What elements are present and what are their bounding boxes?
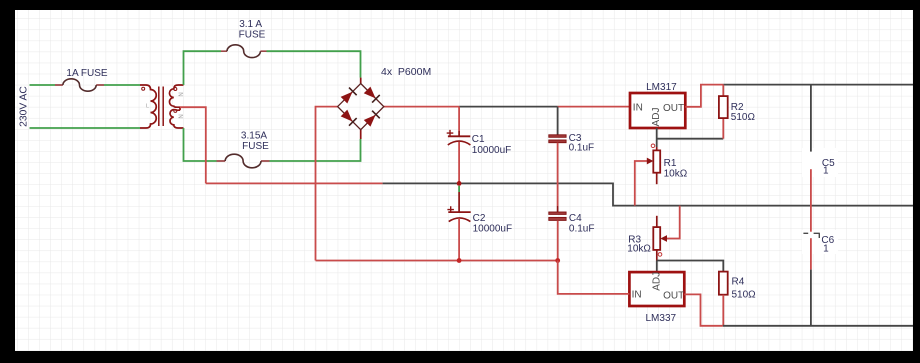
transformer T1 secondary winding 2: [170, 110, 184, 128]
junction node C2 negative rail: [457, 258, 462, 263]
wire bridge negative to rail: [316, 107, 338, 261]
potentiometer R1 body: [653, 150, 660, 172]
potentiometer R1 wiper wire: [635, 161, 647, 206]
capacitor C5 label: [822, 158, 835, 177]
bridge rectifier B1 leads: [360, 78, 362, 139]
capacitor C1: [447, 130, 471, 145]
potentiometer R3 wiper arrow: [660, 235, 667, 242]
capacitor C4 bottom lead: [557, 220, 559, 260]
wire positive top rail: [723, 84, 913, 86]
capacitor C5 bottom lead: [810, 169, 812, 232]
wire stub green below junction: [458, 186, 460, 192]
potentiometer R3 bottom lead: [656, 250, 658, 261]
bridge diode D4 bottom-right: [363, 111, 379, 127]
wire R2 bottom lead: [722, 118, 724, 139]
transformer T1 primary polarity dot: [142, 87, 145, 90]
svg-text:4x P600M: 4x P600M: [381, 66, 431, 78]
junction node C1-C2: [457, 181, 462, 186]
potentiometer R1 label: [664, 158, 688, 179]
wire LM337 OUT: [684, 294, 723, 325]
svg-text:1A FUSE: 1A FUSE: [66, 68, 107, 79]
bridge diode D3 bottom-left: [340, 109, 356, 125]
wire positive dark segment: [459, 106, 557, 108]
potentiometer R1 wiper arrow: [647, 158, 654, 165]
regulator U1 LM317 box: [630, 93, 685, 128]
fuse F3 3.15A: [217, 160, 270, 162]
svg-text:L: L: [146, 104, 149, 110]
capacitor C4 top lead: [557, 206, 559, 212]
potentiometer R1 top lead: [656, 147, 658, 150]
svg-text:510Ω: 510Ω: [731, 112, 756, 123]
capacitor C2 bottom lead: [458, 218, 460, 260]
svg-text:10kΩ: 10kΩ: [627, 243, 651, 254]
svg-text:0.1uF: 0.1uF: [569, 223, 595, 234]
capacitor C1 bottom lead: [458, 142, 460, 183]
capacitor C3: [549, 135, 566, 143]
svg-text:LM337: LM337: [646, 313, 677, 324]
svg-text:C2: C2: [473, 213, 486, 224]
capacitor C6 top plate: [803, 233, 819, 238]
svg-text:LM317: LM317: [646, 82, 677, 93]
capacitor C6 white halo: [802, 230, 838, 254]
capacitor C6 bottom lead: [810, 238, 812, 269]
svg-text:3.15A: 3.15A: [241, 130, 267, 141]
svg-text:10kΩ: 10kΩ: [664, 169, 688, 180]
wire secondary bottom to 3.15A fuse: [184, 128, 361, 161]
svg-text:R4: R4: [732, 277, 745, 288]
wire LM317 ADJ: [657, 128, 724, 147]
potentiometer R1 pin ring: [651, 144, 655, 148]
transformer T1 secondary winding 1: [169, 85, 183, 107]
svg-text:230V AC: 230V AC: [18, 86, 29, 127]
wire mid rail dark: [383, 183, 913, 205]
fuse F1 1A: [55, 84, 104, 86]
capacitor C1 top lead: [458, 107, 460, 131]
potentiometer R1 bottom lead: [656, 173, 658, 185]
svg-text:ADJ: ADJ: [651, 272, 662, 291]
svg-text:IN: IN: [632, 290, 642, 301]
capacitor C3 bottom lead wire: [557, 143, 559, 206]
svg-text:0.1uF: 0.1uF: [569, 142, 595, 153]
svg-text:N: N: [176, 92, 182, 96]
bridge diode D1 top-left: [340, 88, 356, 104]
svg-text:OUT: OUT: [663, 103, 684, 114]
wire C6 to bottom rail: [810, 270, 812, 326]
wire center tap to mid rail: [180, 107, 206, 183]
bridge diode D2 top-right: [363, 86, 379, 102]
potentiometer R3 body: [653, 227, 660, 250]
fuse F2 label 3.1 A FUSE: [239, 19, 266, 41]
capacitor C6 label: [821, 235, 834, 254]
svg-text:FUSE: FUSE: [242, 141, 269, 152]
capacitor C2: [447, 206, 470, 221]
capacitor C4 label: [569, 213, 595, 234]
svg-text:C4: C4: [569, 213, 582, 224]
wire to LM317 IN: [558, 106, 630, 108]
transformer T1 center tap stub: [179, 107, 181, 110]
capacitor C3 top lead: [557, 107, 559, 135]
capacitor C5 white halo: [802, 148, 838, 177]
wire AC live top: [30, 84, 141, 86]
capacitor C4: [549, 212, 566, 220]
transformer T1 winding1 polarity dot: [174, 88, 177, 91]
svg-text:510Ω: 510Ω: [732, 290, 757, 301]
svg-text:1: 1: [823, 243, 829, 254]
potentiometer R3 wiper wire: [667, 206, 680, 239]
capacitor C3 label: [569, 133, 595, 153]
resistor R4 label: [732, 277, 757, 301]
transformer T1 primary: [140, 85, 156, 128]
wire LM337 IN: [558, 261, 630, 294]
svg-text:R1: R1: [664, 158, 677, 169]
resistor R4 bottom lead: [722, 295, 724, 326]
wire negative bottom rail: [723, 325, 913, 327]
fuse F3 label 3.15A FUSE: [241, 130, 269, 152]
junction node C4 negative rail: [555, 258, 560, 263]
svg-text:N: N: [176, 114, 182, 118]
wire bridge positive output: [384, 106, 459, 108]
bridge rectifier B1 diamond: [338, 84, 384, 130]
svg-text:ADJ: ADJ: [651, 108, 662, 127]
svg-text:10000uF: 10000uF: [473, 223, 512, 234]
svg-text:C1: C1: [472, 134, 485, 145]
transformer T1 winding2 polarity dot: [174, 109, 177, 112]
potentiometer R3 label: [627, 235, 651, 255]
capacitor C2 top lead: [458, 192, 460, 212]
capacitor C5 top lead: [810, 85, 812, 152]
potentiometer R3 pin ring: [658, 253, 662, 257]
resistor R2 label: [731, 102, 756, 123]
transformer T1 core: [159, 87, 163, 127]
resistor R2: [719, 96, 728, 118]
fuse F2 3.1A: [221, 50, 267, 52]
svg-text:IN: IN: [633, 103, 643, 114]
svg-text:FUSE: FUSE: [239, 30, 266, 41]
capacitor C1 label: [472, 134, 511, 156]
resistor R2 top lead: [722, 85, 724, 97]
resistor R4: [719, 272, 728, 295]
wire secondary top to 3.1A fuse: [184, 51, 361, 85]
potentiometer R3 top lead stub: [656, 216, 658, 227]
wire R3 to R4 and LM337 ADJ: [657, 261, 724, 273]
svg-text:10000uF: 10000uF: [472, 145, 511, 156]
wire AC neutral bottom: [30, 127, 141, 129]
wire mid rail red: [206, 182, 383, 184]
wire negative rail: [316, 260, 558, 262]
svg-text:3.1 A: 3.1 A: [239, 19, 262, 30]
wire LM317 OUT: [685, 85, 723, 107]
regulator U2 LM337 box: [629, 272, 684, 306]
svg-text:1: 1: [823, 166, 829, 177]
svg-text:OUT: OUT: [663, 290, 684, 301]
capacitor C2 label: [473, 213, 512, 234]
